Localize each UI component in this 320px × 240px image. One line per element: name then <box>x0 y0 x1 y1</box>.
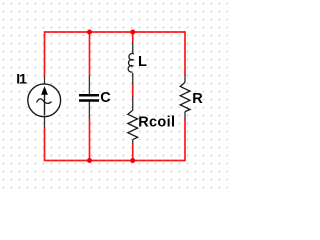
label L <box>138 54 147 70</box>
wire bottom bus <box>45 160 186 162</box>
svg-text:L: L <box>138 54 147 70</box>
resistor Rcoil <box>128 97 138 144</box>
label I1 <box>16 71 27 87</box>
wire capacitor bottom stub <box>89 118 91 160</box>
label C <box>100 90 111 106</box>
inductor L <box>128 41 133 84</box>
svg-text:C: C <box>100 90 111 106</box>
node bottom inductor junction <box>130 158 135 163</box>
capacitor C <box>79 76 99 119</box>
wire right upper segment <box>184 31 186 75</box>
resistor R <box>180 75 190 119</box>
svg-text:Rcoil: Rcoil <box>138 115 175 131</box>
wire Rcoil bottom stub <box>132 144 134 161</box>
wire top bus <box>45 31 186 33</box>
wire left lower segment <box>44 127 46 161</box>
label R <box>192 91 203 107</box>
svg-text:I1: I1 <box>16 71 27 87</box>
wire between L and Rcoil <box>132 84 134 97</box>
svg-text:R: R <box>192 91 203 107</box>
node top capacitor junction <box>87 30 92 35</box>
label Rcoil <box>138 115 175 131</box>
wire capacitor top stub <box>89 32 91 76</box>
current source I1 <box>28 76 61 127</box>
node bottom capacitor junction <box>87 158 92 163</box>
node top inductor junction <box>130 30 135 35</box>
wire right lower segment <box>184 118 186 161</box>
wire inductor top stub <box>132 32 134 41</box>
wire left upper segment <box>44 31 46 76</box>
